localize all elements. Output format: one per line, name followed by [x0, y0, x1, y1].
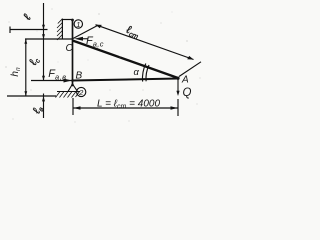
arrowhead: l1 down at y=29.5 [42, 25, 45, 30]
svg-text:ℓ: ℓ [21, 13, 34, 23]
svg-text:A: A [181, 75, 189, 86]
level line L1 (y=29.5) [10, 29, 48, 31]
bottom dimension line L [74, 107, 178, 109]
force Q arrow shaft at A [177, 79, 179, 94]
arrowhead: up at base y=96 [42, 96, 45, 101]
force F_O,c arrow (points left toward C) [74, 37, 83, 41]
svg-text:α: α [134, 67, 140, 78]
svg-text:ℓст: ℓст [123, 24, 141, 41]
level line L2 (C level, y=39) [25, 38, 73, 40]
arrowhead: down at C level y=39 [42, 34, 45, 39]
svg-text:2: 2 [78, 88, 84, 97]
extension line at A for rod dimension [179, 62, 201, 77]
point A dot [176, 77, 179, 80]
svg-text:Fа,в: Fа,в [48, 68, 66, 82]
wall hatching [57, 19, 62, 40]
bracket top edge [62, 19, 72, 21]
svg-text:ℓс: ℓс [27, 55, 42, 68]
svg-text:Q: Q [183, 87, 192, 99]
force F_O,B arrowhead (points right toward B) [64, 79, 72, 83]
tick at left end of L1 [9, 27, 11, 34]
wall line [61, 19, 63, 39]
dimension line l_st along rod [96, 25, 194, 60]
ground hatching [56, 92, 80, 98]
level line L4 (base, y=96) [7, 95, 56, 97]
svg-text:Fа,с: Fа,с [86, 35, 104, 49]
node B dot [71, 79, 74, 82]
pin apex dot [71, 84, 74, 87]
rod C-A (member 1) [73, 41, 179, 79]
bottom dim left arrowhead [74, 106, 81, 109]
circle 2 (post number) [77, 87, 86, 96]
dim l_st left arrowhead [95, 25, 102, 29]
arrowhead: down at beam y=80.5 [42, 76, 45, 81]
svg-text:1: 1 [76, 20, 80, 29]
bottom dim right arrowhead [171, 106, 178, 109]
svg-text:L = ℓст = 4000: L = ℓст = 4000 [97, 99, 160, 111]
circle 1 (rod number) [74, 20, 82, 28]
svg-text:B: B [76, 71, 83, 82]
ground line [57, 91, 80, 93]
beam B-A [73, 79, 179, 81]
dim l_st right arrowhead [187, 56, 194, 60]
post (member 2) [72, 20, 74, 86]
support pin triangle [68, 84, 78, 92]
arrowhead: h_n up [24, 39, 27, 44]
svg-text:C: C [66, 43, 74, 54]
extension line below support for bottom dimension [72, 98, 74, 115]
dimension line l1 (top vertical, x=43.5) [43, 3, 45, 81]
arrowhead: h_n down [24, 91, 27, 96]
bracket corner pin dot [71, 19, 74, 22]
extension line at C for rod dimension [73, 26, 98, 39]
svg-text:hп: hп [10, 67, 22, 77]
extension line below A for bottom dimension [177, 99, 179, 116]
angle alpha arcs at A [146, 65, 149, 81]
dimension line h_n (x=25.8) [25, 39, 27, 96]
dimension line segment below base (x=43.5) [43, 94, 45, 119]
force Q arrowhead (down) [176, 91, 179, 96]
beam extension line to the left of B [31, 80, 73, 82]
